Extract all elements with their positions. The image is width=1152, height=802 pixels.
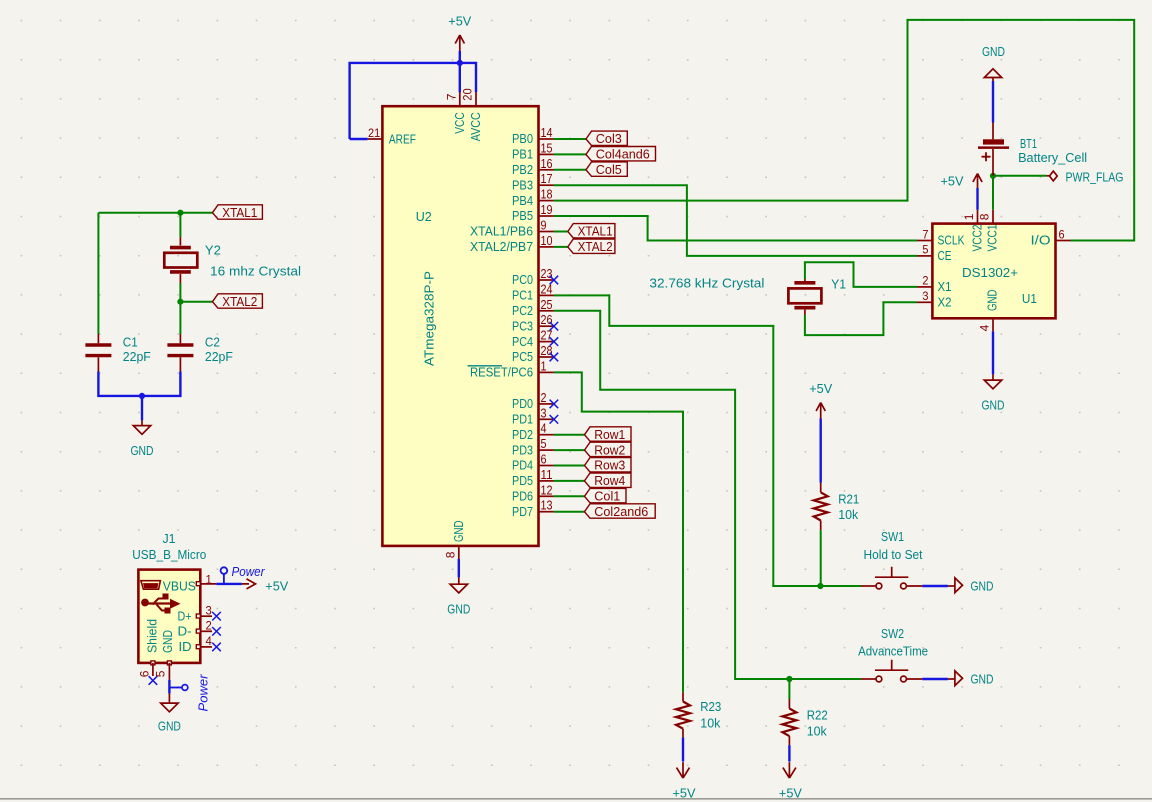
svg-text:PD3: PD3: [512, 442, 533, 457]
wire +5V to VCC/AVCC/AREF (blue): [459, 51, 461, 92]
svg-text:Hold to Set: Hold to Set: [864, 547, 923, 562]
wire battery to PWR_FLAG: [993, 175, 1047, 177]
global label Row4: [585, 473, 632, 487]
U2 pin 1 (RESET/PC6): [539, 371, 554, 373]
wire C2 vertical: [179, 302, 181, 334]
svg-text:X1: X1: [938, 279, 952, 294]
wire +5V to R21 (blue): [820, 419, 822, 483]
svg-text:Col5: Col5: [596, 162, 622, 177]
svg-text:PC3: PC3: [512, 318, 533, 333]
svg-text:27: 27: [541, 329, 553, 343]
wire PC2 to SW2 net: [554, 311, 861, 679]
svg-text:GND: GND: [158, 719, 181, 734]
svg-text:C1: C1: [123, 335, 138, 350]
wire XTAL2 to label: [180, 301, 212, 303]
U2 pin 25 (PC2): [539, 310, 554, 312]
junction battery/VCC1: [990, 173, 996, 179]
svg-text:PD7: PD7: [512, 504, 533, 519]
ground: [133, 426, 150, 435]
svg-text:3: 3: [206, 603, 213, 617]
svg-text:7: 7: [444, 93, 458, 100]
svg-text:2: 2: [541, 391, 547, 405]
svg-text:Battery_Cell: Battery_Cell: [1018, 150, 1087, 165]
svg-text:XTAL2: XTAL2: [578, 239, 613, 254]
svg-text:DS1302+: DS1302+: [962, 265, 1018, 280]
U1 pin 4 (GND): [992, 318, 994, 331]
no-connect Shield: [149, 676, 158, 685]
svg-text:GND: GND: [131, 443, 154, 458]
svg-text:R23: R23: [700, 699, 721, 714]
svg-text:Row3: Row3: [594, 458, 625, 473]
global label Col4and6: [586, 147, 656, 161]
J1 pin 5 (GND): [167, 661, 171, 665]
svg-text:23: 23: [541, 267, 553, 281]
svg-text:PWR_FLAG: PWR_FLAG: [1066, 170, 1124, 185]
global label XTAL1 (left): [213, 205, 263, 219]
op-amp U2 body (ATmega328P-P MCU): [382, 106, 538, 546]
svg-text:25: 25: [541, 298, 553, 312]
no-connect PC4: [550, 337, 559, 346]
U1 pin 5 (CE): [917, 255, 932, 257]
svg-text:X2: X2: [938, 295, 952, 310]
USB plug icon: [141, 581, 161, 590]
wire ground drop: [141, 396, 143, 421]
svg-text:+5V: +5V: [941, 174, 964, 189]
global label Row2: [585, 442, 632, 456]
U2 pin 19 (PB5): [539, 215, 554, 217]
svg-text:R21: R21: [838, 492, 859, 507]
U1 pin 7 (SCLK): [917, 240, 932, 242]
wire PB1 to Col4and6: [554, 153, 586, 155]
svg-text:21: 21: [368, 126, 380, 140]
svg-text:10k: 10k: [838, 507, 858, 522]
wire PD7 to Col2and6: [554, 511, 585, 513]
svg-text:XTAL1: XTAL1: [222, 205, 257, 220]
svg-text:VCC: VCC: [452, 112, 467, 134]
wire U2 GND (blue): [458, 559, 460, 577]
U2 pin 27 (PC4): [539, 341, 554, 343]
svg-text:PD2: PD2: [512, 427, 533, 442]
svg-text:PD6: PD6: [512, 489, 533, 504]
svg-text:AdvanceTime: AdvanceTime: [858, 643, 928, 658]
svg-text:12: 12: [541, 483, 553, 497]
svg-text:PB0: PB0: [512, 131, 533, 146]
wire Y2 bottom to XTAL2: [179, 283, 181, 302]
svg-text:AVCC: AVCC: [468, 112, 483, 141]
U2 pin 6 (PD4): [539, 465, 554, 467]
wire battery top to GND (blue): [992, 123, 994, 140]
svg-text:AREF: AREF: [389, 131, 416, 146]
svg-text:8: 8: [444, 551, 458, 558]
svg-text:GND: GND: [985, 290, 1000, 312]
svg-text:GND: GND: [982, 44, 1005, 59]
svg-text:32.768 kHz Crystal: 32.768 kHz Crystal: [649, 276, 764, 291]
op-amp U1 body (DS1302+ RTC): [932, 224, 1055, 319]
svg-text:PB3: PB3: [512, 177, 533, 192]
U2 pin 2 (PD0): [539, 403, 554, 405]
svg-text:22pF: 22pF: [123, 349, 151, 364]
svg-text:XTAL1: XTAL1: [578, 224, 613, 239]
svg-text:2: 2: [922, 274, 928, 288]
svg-text:18: 18: [541, 188, 553, 202]
svg-text:J1: J1: [163, 531, 176, 546]
svg-text:20: 20: [461, 88, 475, 101]
svg-text:U2: U2: [416, 209, 432, 224]
svg-text:Col1: Col1: [594, 489, 620, 504]
wire PB4 to I/O (via top): [554, 20, 1134, 241]
ground: [161, 703, 178, 712]
wire VBUS (blue): [216, 583, 242, 585]
U1 pin 3 (X2): [917, 301, 932, 303]
svg-text:CE: CE: [938, 248, 952, 263]
U2 pin 24 (PC1): [539, 294, 554, 296]
svg-text:14: 14: [541, 126, 553, 140]
wire PB0 to Col3: [554, 138, 586, 140]
svg-text:+5V: +5V: [265, 579, 288, 594]
no-connect D+: [212, 612, 221, 621]
svg-text:6: 6: [1059, 227, 1065, 241]
U2 pin 9 (XTAL1/PB6): [539, 231, 554, 233]
U2 pin 5 (PD3): [539, 449, 554, 451]
label +5V (USB VBUS arrow): [242, 579, 256, 589]
power +5V (above R21): [816, 403, 825, 419]
svg-text:GND: GND: [971, 672, 994, 687]
wire RESET to R23: [554, 372, 683, 692]
U2 pin 23 (PC0): [539, 279, 554, 281]
J1 pin 3 (D+): [196, 614, 200, 618]
svg-text:Power: Power: [196, 674, 211, 712]
global label Col3: [586, 131, 627, 145]
wire PD4 to Row3: [554, 465, 585, 467]
wire R23 to +5V (blue): [682, 737, 684, 761]
wire J1 GND (blue): [168, 680, 170, 694]
svg-text:PD0: PD0: [512, 396, 533, 411]
svg-text:GND: GND: [160, 630, 175, 653]
wire PD3 to Row2: [554, 449, 585, 451]
svg-text:Row1: Row1: [594, 427, 625, 442]
svg-text:SCLK: SCLK: [938, 233, 965, 248]
global label Col1: [585, 488, 627, 502]
svg-text:13: 13: [541, 499, 553, 513]
svg-text:ID: ID: [179, 639, 192, 654]
U1 pin 1 (VCC2): [977, 210, 979, 224]
wire battery to VCC1: [992, 176, 994, 210]
ground GND (right of SW2, rotated): [955, 671, 963, 686]
svg-text:PC4: PC4: [512, 334, 533, 349]
svg-text:Row2: Row2: [594, 442, 625, 457]
no-connect PC3: [550, 322, 559, 331]
svg-text:PC2: PC2: [512, 303, 533, 318]
svg-text:5: 5: [154, 670, 168, 677]
svg-text:C2: C2: [205, 335, 220, 350]
global label Row3: [585, 458, 632, 472]
junction R21/PC1/SW1: [817, 583, 823, 589]
battery BT1: [992, 149, 994, 176]
svg-text:3: 3: [541, 406, 547, 420]
U2 pin 15 (PB1): [539, 153, 554, 155]
wire PD2 to Row1: [554, 434, 585, 436]
resistor R23: [682, 692, 684, 701]
wire R21 to SW1: [820, 530, 822, 586]
wire PB2 to Col5: [554, 169, 586, 171]
U2 pin 13 (PD7): [539, 511, 554, 513]
ground: [984, 380, 1001, 389]
wire Y2 top pin: [179, 213, 181, 237]
wire caps to ground (blue): [98, 372, 180, 396]
svg-text:Row4: Row4: [594, 473, 625, 488]
svg-text:PD1: PD1: [512, 412, 533, 427]
svg-text:Shield: Shield: [145, 619, 160, 653]
svg-text:16 mhz Crystal: 16 mhz Crystal: [210, 264, 301, 279]
hier pin Power (top): [221, 567, 228, 574]
svg-text:SW1: SW1: [881, 529, 904, 544]
power +5V (above U2): [455, 35, 464, 51]
svg-text:15: 15: [541, 141, 553, 155]
svg-text:4: 4: [206, 634, 213, 648]
svg-text:26: 26: [541, 313, 553, 327]
U2 pin 17 (PB3): [539, 184, 554, 186]
svg-text:16: 16: [541, 157, 553, 171]
U1 pin 6 (I/O): [1056, 240, 1071, 242]
U2 pin 12 (PD6): [539, 495, 554, 497]
no-connect PC0: [550, 276, 559, 285]
svg-text:19: 19: [541, 203, 553, 217]
resistor R21: [820, 483, 822, 493]
svg-text:XTAL1/PB6: XTAL1/PB6: [470, 224, 533, 239]
svg-text:Col3: Col3: [596, 131, 622, 146]
hier pin Power (bottom): [169, 687, 181, 689]
wire PB5 to SCLK: [554, 216, 917, 241]
svg-text:+5V: +5V: [448, 14, 471, 29]
svg-text:BT1: BT1: [1020, 136, 1037, 151]
global label XTAL1 (at U2): [568, 224, 615, 238]
svg-text:PC0: PC0: [512, 272, 533, 287]
crystal Y1: [804, 279, 806, 281]
junction R22/PC2/SW2: [786, 676, 792, 682]
power +5V (below R22, flipped): [783, 762, 796, 778]
no-connect PD0: [550, 400, 559, 409]
wire PC1 to SW1 net: [554, 295, 861, 586]
svg-text:3: 3: [922, 289, 928, 303]
svg-text:D-: D-: [178, 624, 192, 639]
ground GND (above battery, flipped): [984, 69, 1001, 78]
wire C1 left vertical: [97, 213, 99, 334]
switch SW2: [861, 678, 876, 680]
svg-text:D+: D+: [178, 609, 192, 624]
wire U1 GND pin to ground (blue): [992, 331, 994, 374]
wire PD6 to Col1: [554, 495, 585, 497]
global label XTAL2 (at U2): [568, 239, 615, 253]
svg-text:PC5: PC5: [512, 349, 533, 364]
svg-text:24: 24: [541, 282, 553, 296]
svg-text:Col4and6: Col4and6: [596, 147, 650, 162]
power +5V (DS1302 VCC2): [973, 174, 982, 190]
svg-text:6: 6: [541, 453, 547, 467]
svg-text:GND: GND: [971, 579, 994, 594]
global label XTAL2 (left): [213, 294, 263, 308]
switch SW1: [861, 585, 876, 587]
U1 pin 8 (VCC1): [992, 210, 994, 224]
junction +5V (blue): [457, 60, 463, 66]
wire PB6 to XTAL1 label: [554, 231, 568, 233]
junction XTAL1 net: [177, 210, 183, 216]
svg-text:GND: GND: [982, 398, 1005, 413]
U2 pin 26 (PC3): [539, 325, 554, 327]
J1 pin 4 (ID): [196, 645, 200, 649]
global label Col2and6: [585, 504, 656, 518]
J1 pin 6 (Shield): [151, 661, 155, 665]
svg-text:USB_B_Micro: USB_B_Micro: [132, 547, 206, 562]
global label Row1: [585, 427, 632, 441]
wire SW1 to GND (blue): [906, 585, 922, 587]
svg-text:Power: Power: [232, 564, 266, 579]
resistor R22: [788, 679, 790, 699]
U2 pin 16 (PB2): [539, 169, 554, 171]
svg-text:PD5: PD5: [512, 473, 533, 488]
no-connect D-: [212, 627, 221, 636]
svg-text:9: 9: [541, 219, 547, 233]
U2 pin 20 AVCC: [475, 92, 477, 106]
svg-text:GND: GND: [447, 602, 470, 617]
svg-text:+5V: +5V: [673, 786, 696, 801]
U1 pin 2 (X1): [917, 286, 932, 288]
capacitor C1: [97, 334, 99, 343]
svg-text:Y2: Y2: [205, 243, 221, 258]
wire R22 to +5V (blue): [788, 745, 790, 761]
no-connect PC5: [550, 353, 559, 362]
svg-text:Col2and6: Col2and6: [594, 504, 648, 519]
svg-text:17: 17: [541, 172, 553, 186]
svg-text:10: 10: [541, 234, 553, 248]
wire PB7 to XTAL2 label: [554, 246, 568, 248]
J1 pin 2 (D-): [196, 629, 200, 633]
connector J1 body (USB_B_Micro): [138, 570, 200, 663]
svg-text:8: 8: [977, 213, 991, 220]
wire PB3 to CE: [554, 185, 917, 256]
U2 pin 18 (PB4): [539, 200, 554, 202]
U2 pin 10 (XTAL2/PB7): [539, 246, 554, 248]
no-connect ID: [212, 643, 221, 652]
global label Col5: [586, 162, 627, 176]
svg-text:PC1: PC1: [512, 288, 533, 303]
svg-text:PB5: PB5: [512, 208, 533, 223]
ground: [450, 584, 467, 593]
svg-text:GND: GND: [451, 521, 466, 543]
svg-text:RESET/PC6: RESET/PC6: [470, 365, 533, 380]
svg-text:4: 4: [541, 422, 547, 436]
wire Y1 bottom to X2: [805, 302, 917, 335]
svg-text:PB1: PB1: [512, 147, 533, 162]
svg-text:+5V: +5V: [809, 381, 832, 396]
wire XTAL1 net horizontal: [98, 212, 212, 214]
svg-text:10k: 10k: [700, 716, 720, 731]
svg-text:22pF: 22pF: [205, 349, 233, 364]
svg-text:U1: U1: [1022, 291, 1037, 306]
U2 pin 3 (PD1): [539, 418, 554, 420]
capacitor C2: [179, 334, 181, 343]
power +5V (below R23, flipped): [677, 762, 690, 778]
U2 pin 7 VCC: [459, 92, 461, 106]
svg-text:7: 7: [922, 227, 928, 241]
svg-text:ATmega328P-P: ATmega328P-P: [422, 271, 437, 366]
svg-text:5: 5: [541, 437, 547, 451]
svg-text:VCC1: VCC1: [985, 225, 1000, 252]
svg-text:+5V: +5V: [779, 786, 802, 801]
svg-text:10k: 10k: [807, 724, 827, 739]
ground GND (right of SW1, rotated): [955, 578, 963, 593]
svg-text:28: 28: [541, 344, 553, 358]
wire Y1 top to X1: [805, 262, 917, 287]
svg-text:XTAL2/PB7: XTAL2/PB7: [470, 239, 533, 254]
svg-text:1: 1: [962, 213, 976, 220]
svg-text:11: 11: [541, 468, 553, 482]
svg-text:5: 5: [922, 243, 928, 257]
svg-text:VCC2: VCC2: [970, 225, 985, 252]
wire +5V to VCC2 (blue): [976, 188, 978, 210]
U2 pin 28 (PC5): [539, 356, 554, 358]
svg-text:PB4: PB4: [512, 193, 533, 208]
svg-text:I/O: I/O: [1031, 233, 1051, 248]
svg-text:Y1: Y1: [831, 276, 846, 291]
svg-text:VBUS: VBUS: [163, 579, 196, 594]
U2 pin 11 (PD5): [539, 480, 554, 482]
wire SW2 to GND (blue): [906, 678, 922, 680]
U2 pin 8 GND: [458, 546, 460, 559]
junction XTAL2 net: [177, 299, 183, 305]
svg-text:XTAL2: XTAL2: [222, 294, 257, 309]
U2 pin 14 (PB0): [539, 138, 554, 140]
svg-text:4: 4: [978, 324, 992, 331]
wire PD5 to Row4: [554, 480, 585, 482]
svg-text:1: 1: [206, 572, 213, 586]
USB trident icon: [141, 599, 149, 607]
no-connect PD1: [550, 415, 559, 424]
svg-text:SW2: SW2: [881, 626, 904, 641]
junction cap ground (blue): [139, 393, 145, 399]
svg-text:1: 1: [541, 359, 547, 373]
U2 pin 4 (PD2): [539, 434, 554, 436]
svg-text:2: 2: [206, 619, 213, 633]
U2 pin 21 AREF: [368, 138, 383, 140]
svg-text:R22: R22: [807, 708, 828, 723]
flag PWR_FLAG: [1047, 175, 1050, 177]
crystal Y2: [179, 237, 181, 245]
svg-text:PD4: PD4: [512, 458, 533, 473]
svg-text:PB2: PB2: [512, 162, 533, 177]
